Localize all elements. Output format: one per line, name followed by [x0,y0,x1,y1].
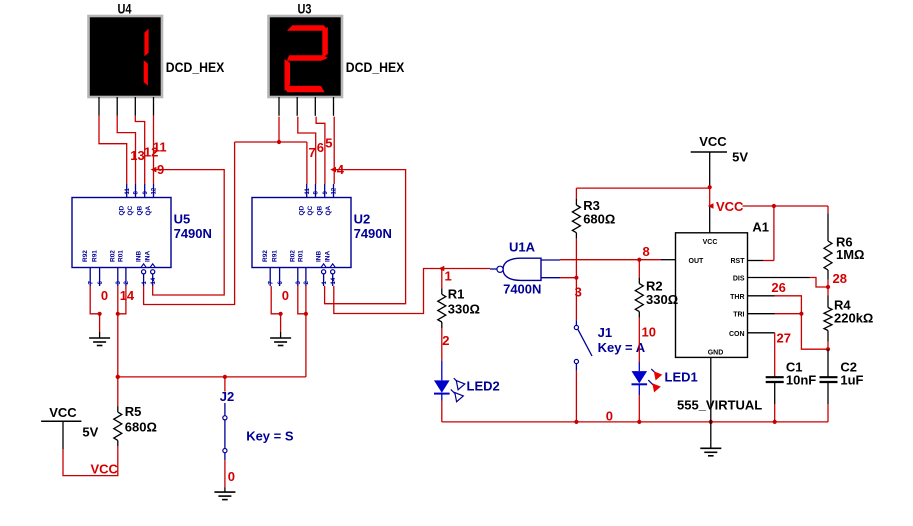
svg-text:TRI: TRI [733,312,744,319]
svg-text:9: 9 [157,162,164,177]
svg-text:8: 8 [314,191,320,195]
svg-text:INA: INA [144,251,151,263]
svg-text:1MΩ: 1MΩ [836,247,864,262]
svg-text:U4: U4 [118,2,132,17]
svg-text:2: 2 [304,281,310,285]
svg-text:VCC: VCC [91,462,119,477]
svg-text:1: 1 [445,269,452,284]
svg-text:330Ω: 330Ω [646,292,678,307]
svg-text:0: 0 [228,469,235,484]
svg-text:0: 0 [606,408,613,423]
svg-text:7: 7 [88,281,94,285]
svg-text:12: 12 [152,187,158,194]
svg-text:8: 8 [643,244,650,259]
svg-text:Key = S: Key = S [246,429,294,444]
svg-text:U1A: U1A [509,239,536,254]
svg-text:27: 27 [777,331,791,346]
svg-text:11: 11 [125,187,131,194]
svg-text:CON: CON [729,331,745,338]
svg-text:7490N: 7490N [354,226,392,241]
svg-text:555_VIRTUAL: 555_VIRTUAL [677,398,762,413]
svg-text:0: 0 [282,288,289,303]
svg-text:A1: A1 [752,220,769,235]
svg-text:R5: R5 [125,404,142,419]
svg-text:VCC: VCC [716,199,744,214]
svg-text:6: 6 [317,140,324,155]
svg-text:9: 9 [323,191,329,195]
svg-text:QC: QC [307,205,314,215]
svg-text:9: 9 [143,191,149,195]
svg-text:QC: QC [127,205,134,215]
svg-text:U2: U2 [354,212,371,227]
svg-text:R02: R02 [290,250,297,262]
svg-text:R92: R92 [262,250,269,262]
svg-text:220kΩ: 220kΩ [834,311,873,326]
svg-text:RST: RST [731,258,746,265]
svg-text:1: 1 [142,281,148,285]
svg-text:13: 13 [130,148,144,163]
svg-text:5V: 5V [82,424,98,439]
svg-text:R02: R02 [110,250,117,262]
svg-text:VCC: VCC [699,134,727,149]
svg-text:14: 14 [120,288,135,303]
svg-text:OUT: OUT [689,258,705,265]
svg-text:7400N: 7400N [503,282,541,297]
svg-text:LED1: LED1 [665,370,698,385]
svg-text:7: 7 [268,281,274,285]
svg-text:28: 28 [833,271,847,286]
svg-text:R01: R01 [118,250,125,262]
svg-text:INB: INB [135,251,142,263]
svg-text:DCD_HEX: DCD_HEX [166,59,225,75]
svg-text:QD: QD [118,205,125,215]
svg-text:GND: GND [708,350,724,357]
svg-text:QA: QA [145,205,152,215]
svg-text:1uF: 1uF [840,372,863,387]
svg-text:R01: R01 [298,250,305,262]
svg-text:INA: INA [324,251,331,263]
svg-text:2: 2 [124,281,130,285]
svg-text:DCD_HEX: DCD_HEX [346,59,405,75]
svg-text:J1: J1 [598,325,612,340]
svg-text:11: 11 [153,139,167,154]
svg-text:3: 3 [575,285,582,300]
svg-text:6: 6 [278,281,284,285]
svg-text:U5: U5 [174,212,191,227]
svg-text:THR: THR [730,294,744,301]
svg-text:8: 8 [134,191,140,195]
svg-text:26: 26 [771,280,785,295]
svg-text:4: 4 [337,162,345,177]
svg-text:10: 10 [642,325,656,340]
svg-text:VCC: VCC [49,405,77,420]
svg-text:7: 7 [309,145,316,160]
svg-text:U3: U3 [298,2,312,17]
svg-text:R1: R1 [448,286,465,301]
svg-text:1: 1 [322,281,328,285]
svg-text:12: 12 [332,187,338,194]
svg-text:7490N: 7490N [174,226,212,241]
svg-text:680Ω: 680Ω [125,420,157,435]
svg-text:R92: R92 [82,250,89,262]
svg-text:2: 2 [442,333,449,348]
svg-text:14: 14 [151,277,157,284]
svg-text:DIS: DIS [733,275,745,282]
svg-text:3: 3 [116,281,122,285]
svg-text:6: 6 [98,281,104,285]
svg-text:QA: QA [325,205,332,215]
svg-text:LED2: LED2 [467,379,500,394]
svg-text:Key = A: Key = A [598,340,646,355]
svg-text:QB: QB [316,205,323,215]
svg-text:3: 3 [296,281,302,285]
svg-text:R91: R91 [91,250,98,262]
svg-text:10nF: 10nF [786,372,816,387]
svg-text:5: 5 [325,136,332,151]
svg-text:QD: QD [298,205,305,215]
svg-text:330Ω: 330Ω [448,302,480,317]
svg-text:J2: J2 [220,389,234,404]
svg-text:VCC: VCC [703,239,718,246]
svg-text:0: 0 [101,288,108,303]
svg-text:11: 11 [305,187,311,194]
svg-text:QB: QB [136,205,143,215]
svg-text:5V: 5V [732,150,748,165]
svg-text:14: 14 [331,277,337,284]
svg-text:680Ω: 680Ω [583,212,615,227]
svg-text:R91: R91 [271,250,278,262]
svg-text:INB: INB [315,251,322,263]
